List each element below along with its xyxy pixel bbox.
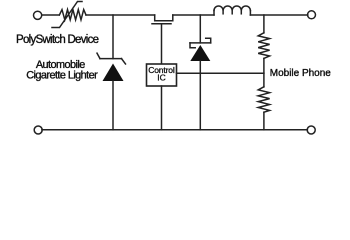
svg-text:IC: IC bbox=[157, 73, 166, 83]
svg-text:PolySwitch Device: PolySwitch Device bbox=[16, 34, 99, 46]
svg-text:Mobile Phone: Mobile Phone bbox=[270, 68, 331, 79]
svg-text:Cigarette Lighter: Cigarette Lighter bbox=[26, 69, 98, 81]
